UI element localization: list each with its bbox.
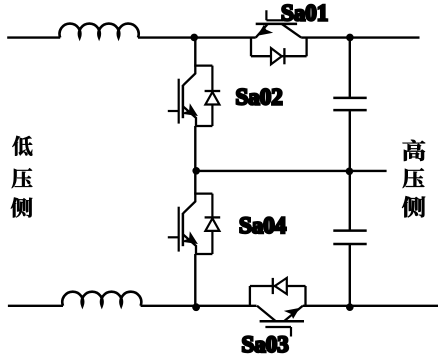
IGBT Sa04 (lower-left vertical switch, copy of Sa02 shifted down): [168, 194, 220, 254]
body bar Sa03: [260, 320, 304, 323]
svg-text:Sa01: Sa01: [281, 1, 328, 26]
wire: HV leg mid node to C2: [349, 171, 351, 229]
gate bar Sa02: [178, 79, 180, 124]
wire: top bus from L1 to Sa01: [138, 36, 256, 38]
node: junction dot bottom-right: [346, 303, 354, 311]
gate lead Sa01: [266, 10, 283, 20]
gate bar Sa04: [178, 207, 180, 252]
emitter arrow Sa02: [184, 105, 197, 115]
node: junction dot bottom-left: [192, 303, 200, 311]
label 侧 (side) right column: [402, 196, 425, 217]
node: junction dot mid-left: [192, 167, 200, 175]
body bar Sa01: [256, 23, 297, 26]
svg-text:Sa03: Sa03: [242, 332, 289, 357]
diode cathode bar Sa03: [272, 278, 274, 294]
emitter diagonal Sa04: [183, 234, 196, 254]
top jumper Sa04: [194, 193, 212, 195]
emitter diagonal Sa03: [284, 306, 303, 322]
capacitor C2 bottom plate: [333, 243, 366, 246]
body bar Sa02: [182, 85, 185, 118]
label 压 (voltage) left column: [12, 168, 33, 188]
label 压 (voltage) right column: [403, 168, 425, 188]
diode triangle Sa03: [275, 278, 287, 294]
wire: left leg from Sa04 to bottom bus: [194, 254, 196, 306]
wire: HV leg C1 to mid node: [349, 111, 351, 171]
antiparallel diode loop Sa03: [250, 286, 306, 306]
gate lead Sa03: [265, 327, 291, 337]
wire: middle bus: [195, 170, 386, 172]
inductor L2 (bottom inductor, 4 humps): [62, 292, 141, 306]
node: junction dot mid-right: [346, 168, 354, 176]
inductor L1 (low-voltage side inductor, 4 humps): [60, 24, 139, 38]
node: junction dot top-right: [346, 34, 354, 42]
IGBT Sa02 (upper-left vertical switch with antiparallel diode): [168, 66, 220, 126]
emitter arrow Sa04: [184, 233, 197, 243]
diode cathode bar Sa04: [205, 216, 221, 218]
collector diagonal Sa03: [257, 306, 276, 322]
gate lead Sa04: [168, 236, 179, 238]
capacitor C1 top plate: [333, 97, 366, 100]
diode cathode bar Sa02: [205, 90, 221, 92]
wire: top bus left segment: [7, 36, 60, 38]
top jumper Sa02: [194, 64, 212, 66]
collector lead Sa02: [183, 66, 195, 86]
emitter arrow Sa03: [286, 309, 298, 318]
emitter diagonal Sa02: [183, 106, 196, 126]
wire: top bus from Sa01 to right end: [301, 36, 419, 38]
wire: left leg from Sa02 to mid node: [194, 126, 196, 171]
antiparallel diode loop Sa01: [251, 38, 307, 57]
label 低 (low) left column: [12, 136, 32, 156]
diode branch wire Sa02: [211, 66, 213, 126]
wire: bottom bus from L2 to Sa03: [141, 305, 257, 307]
svg-text:Sa02: Sa02: [236, 85, 283, 110]
collector lead Sa04: [183, 194, 195, 214]
wire: bottom bus left segment: [8, 305, 63, 307]
diode triangle Sa04: [205, 218, 219, 231]
diode triangle Sa01: [271, 48, 282, 64]
diode branch wire Sa04: [211, 194, 213, 254]
wire: left leg from top bus to Sa02: [194, 38, 196, 66]
wire: HV leg top (bus to C1): [349, 38, 351, 97]
wire: bottom bus from Sa03 to right end: [303, 305, 438, 307]
gate lead Sa02: [168, 110, 179, 112]
body bar Sa04: [182, 213, 185, 246]
collector diagonal Sa01: [282, 24, 301, 38]
node: junction dot top-left: [190, 34, 198, 42]
capacitor C2 top plate: [333, 229, 366, 232]
IGBT Sa01 (top horizontal switch with antiparallel diode): [251, 10, 307, 64]
wire: left leg from mid node to Sa04: [194, 171, 196, 194]
capacitor C1 bottom plate: [333, 109, 366, 112]
label 高 (high) right column: [403, 140, 426, 161]
svg-text:Sa04: Sa04: [239, 213, 287, 238]
emitter arrow Sa01: [259, 26, 271, 35]
wire: HV leg C2 to bottom bus: [349, 245, 351, 306]
label 侧 (side) left column: [11, 197, 33, 217]
IGBT Sa03 (bottom horizontal switch with antiparallel diode): [250, 278, 306, 337]
bottom jumper Sa02: [195, 125, 212, 127]
diode triangle Sa02: [205, 92, 219, 105]
bottom jumper Sa04: [195, 253, 212, 255]
emitter diagonal Sa01: [256, 24, 268, 38]
diode cathode bar Sa01: [283, 48, 285, 64]
